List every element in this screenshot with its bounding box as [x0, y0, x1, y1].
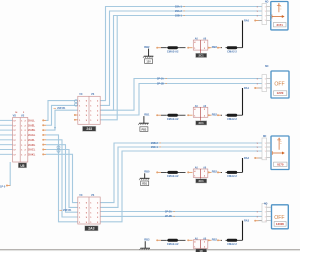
svg-text:13006: 13006: [276, 222, 284, 226]
svg-text:OFF: OFF: [274, 81, 284, 87]
svg-text:VS: VS: [91, 194, 95, 197]
svg-text:2SC-1: 2SC-1: [151, 146, 158, 149]
svg-text:VS: VS: [21, 114, 25, 117]
svg-text:1: 1: [265, 216, 266, 218]
svg-text:NO: NO: [265, 2, 269, 4]
svg-text:1: 1: [265, 221, 266, 223]
svg-text:2SP-B1: 2SP-B1: [63, 209, 72, 212]
svg-text:243: 243: [86, 127, 92, 131]
svg-text:RB0: RB0: [144, 170, 150, 174]
svg-text:JSP-B1: JSP-B1: [57, 107, 66, 110]
svg-text:2/AAL: 2/AAL: [28, 134, 36, 137]
svg-text:RA2: RA2: [244, 157, 250, 160]
svg-text:2P-1B: 2P-1B: [157, 82, 164, 85]
svg-text:2/AKL: 2/AKL: [28, 153, 36, 156]
svg-text:2/AEL: 2/AEL: [28, 124, 36, 127]
svg-text:1: 1: [265, 78, 266, 80]
svg-text:2P-1A: 2P-1A: [157, 77, 164, 80]
svg-text:2SA-2: 2SA-2: [175, 10, 182, 13]
svg-text:1: 1: [265, 20, 266, 22]
svg-text:RB2: RB2: [144, 45, 150, 49]
svg-text:2P-2B: 2P-2B: [165, 215, 172, 218]
svg-text:RB2: RB2: [212, 238, 218, 242]
svg-text:U5: U5: [20, 164, 24, 168]
svg-text:NO: NO: [264, 203, 268, 205]
svg-text:12V: 12V: [146, 61, 151, 64]
svg-text:2/ABL: 2/ABL: [28, 129, 36, 132]
svg-text:1: 1: [265, 15, 266, 17]
svg-text:RB3: RB3: [144, 238, 150, 242]
svg-text:CMA2-2: CMA2-2: [227, 49, 237, 53]
svg-text:1: 1: [265, 157, 266, 159]
svg-text:NO: NO: [265, 66, 269, 68]
svg-text:PB3: PB3: [141, 129, 146, 132]
svg-text:NO: NO: [263, 136, 267, 138]
svg-text:CMA2-2: CMA2-2: [227, 117, 237, 121]
svg-text:OFF: OFF: [274, 215, 284, 221]
svg-text:RB2: RB2: [212, 45, 218, 49]
svg-text:0170: 0170: [277, 163, 284, 167]
svg-text:CMA2-A2: CMA2-A2: [167, 117, 179, 121]
svg-text:RB2: RB2: [212, 113, 218, 117]
svg-text:2/ADL: 2/ADL: [28, 144, 36, 147]
svg-text:RA0: RA0: [244, 20, 250, 23]
svg-text:2C1: 2C1: [199, 179, 205, 183]
svg-text:RB1: RB1: [144, 113, 150, 117]
svg-text:RA3: RA3: [244, 220, 250, 223]
svg-text:VD: VD: [13, 114, 17, 117]
svg-text:RB2: RB2: [212, 170, 218, 174]
svg-text:12V0: 12V0: [277, 91, 284, 95]
svg-text:1P-0: 1P-0: [0, 186, 6, 189]
svg-text:RD1: RD1: [142, 183, 148, 186]
svg-text:1: 1: [265, 83, 266, 85]
svg-text:CMA2-A2: CMA2-A2: [167, 49, 179, 53]
svg-text:1: 1: [265, 6, 266, 8]
svg-text:2/AFL: 2/AFL: [28, 139, 35, 142]
svg-text:2SB-2: 2SB-2: [151, 142, 158, 145]
svg-text:1: 1: [265, 211, 266, 213]
svg-text:1: 1: [265, 207, 266, 209]
svg-text:2C1: 2C1: [199, 54, 205, 58]
svg-text:1: 1: [265, 88, 266, 90]
svg-text:CMA2-2: CMA2-2: [227, 242, 237, 246]
svg-text:1: 1: [265, 11, 266, 13]
svg-text:2171: 2171: [276, 23, 283, 27]
svg-text:1: 1: [265, 143, 266, 145]
svg-text:2C1: 2C1: [199, 121, 205, 125]
svg-text:2A3: 2A3: [88, 227, 94, 231]
svg-text:1: 1: [265, 147, 266, 149]
svg-text:RA1: RA1: [244, 87, 250, 90]
svg-text:VS: VS: [91, 93, 95, 96]
svg-text:2/ALL: 2/ALL: [28, 120, 35, 123]
svg-text:VC: VC: [79, 93, 83, 96]
svg-text:2SA-1: 2SA-1: [175, 5, 182, 8]
svg-text:VC: VC: [79, 194, 83, 197]
svg-text:CMA2-A2: CMA2-A2: [167, 242, 179, 246]
svg-text:2P-2A: 2P-2A: [165, 210, 172, 213]
svg-text:1: 1: [265, 151, 266, 153]
svg-text:CMA2-A2: CMA2-A2: [167, 174, 179, 178]
svg-text:2SB-1: 2SB-1: [175, 14, 182, 17]
svg-text:CMA2-2: CMA2-2: [227, 174, 237, 178]
svg-text:2/ACL: 2/ACL: [28, 149, 36, 152]
